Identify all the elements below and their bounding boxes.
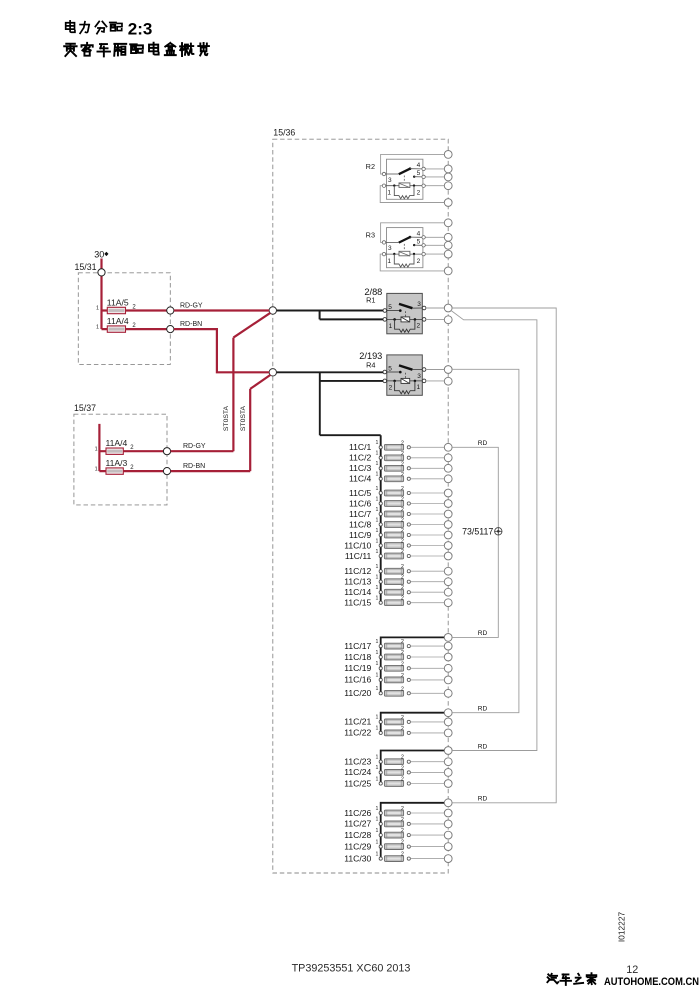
- fuse 11C/27: [344, 817, 452, 829]
- svg-text:5: 5: [417, 239, 421, 246]
- svg-text:4: 4: [417, 230, 421, 237]
- node A: junction circle on 15/36 edge (feed of R1): [269, 307, 276, 314]
- svg-text:1: 1: [376, 440, 379, 446]
- fuse box 15/37 (dashed): [74, 403, 167, 505]
- svg-text:1: 1: [376, 817, 379, 823]
- svg-text:15/31: 15/31: [75, 262, 97, 272]
- fuse 11C/12: [344, 564, 452, 576]
- wire: supply junction to relay R1 pin 5 and pin 1 (black): [277, 311, 384, 320]
- svg-text:1: 1: [376, 686, 379, 692]
- svg-text:2: 2: [401, 549, 404, 555]
- svg-text:1: 1: [96, 324, 99, 330]
- wire: internal bus stub in 15/37 (maroon): [99, 424, 106, 471]
- fuse 11C/2: [349, 451, 452, 463]
- svg-text:1: 1: [376, 517, 379, 523]
- fuse 11C/15: [344, 596, 452, 608]
- fuse 11C/11: [345, 549, 452, 561]
- svg-text:11C/6: 11C/6: [349, 498, 372, 508]
- svg-text:2: 2: [401, 817, 404, 823]
- fuse 11C/24: [344, 765, 452, 777]
- svg-text:11C/7: 11C/7: [349, 509, 372, 519]
- svg-text:1: 1: [376, 538, 379, 544]
- svg-text:2: 2: [401, 852, 404, 858]
- relay 2/88 R1: [364, 287, 425, 334]
- node circle group header y=803: [444, 799, 452, 807]
- svg-text:1: 1: [376, 564, 379, 570]
- svg-text:73/5117: 73/5117: [462, 527, 493, 537]
- svg-text:TP39253551 XC60 2013: TP39253551 XC60 2013: [292, 963, 411, 975]
- svg-text:RD-GY: RD-GY: [180, 303, 203, 310]
- svg-text:11C/17: 11C/17: [344, 641, 371, 651]
- svg-text:2: 2: [401, 715, 404, 721]
- fuse 11C/1: [349, 440, 452, 452]
- svg-text:11C/14: 11C/14: [344, 587, 371, 597]
- svg-text:1: 1: [376, 776, 379, 782]
- svg-text:11C/9: 11C/9: [349, 530, 372, 540]
- fuse 11C/21: [344, 715, 452, 727]
- svg-text:11C/26: 11C/26: [344, 808, 371, 818]
- svg-text:2: 2: [401, 639, 404, 645]
- svg-text:2: 2: [417, 322, 421, 329]
- svg-text:11C/11: 11C/11: [345, 551, 372, 561]
- fuse 11C/13: [344, 575, 452, 587]
- svg-text:11C/15: 11C/15: [344, 598, 371, 608]
- svg-text:11C/24: 11C/24: [344, 767, 371, 777]
- fuse 11C/5: [349, 486, 452, 498]
- svg-text:11C/19: 11C/19: [344, 663, 371, 673]
- svg-text:1: 1: [95, 446, 98, 452]
- svg-text:2: 2: [401, 661, 404, 667]
- fuse 11C/30: [344, 851, 452, 863]
- svg-text:2: 2: [401, 650, 404, 656]
- svg-text:2: 2: [417, 258, 421, 265]
- watermark 汽车之家: [547, 973, 596, 985]
- svg-text:1: 1: [387, 258, 391, 265]
- svg-text:1: 1: [376, 451, 379, 457]
- svg-text:11C/22: 11C/22: [344, 728, 371, 738]
- terminal circle 15/31 right edge row 2: [167, 326, 174, 333]
- svg-text:2: 2: [401, 585, 404, 591]
- svg-text:I012227: I012227: [617, 912, 627, 943]
- fuse 11C/29: [344, 839, 452, 851]
- svg-text:1: 1: [376, 726, 379, 732]
- svg-text:2: 2: [401, 777, 404, 783]
- svg-text:2: 2: [401, 673, 404, 679]
- svg-text:11C/4: 11C/4: [349, 474, 372, 484]
- terminal circles of relay R1 on 15/36 edge: [444, 304, 452, 324]
- svg-text:3: 3: [388, 177, 392, 184]
- svg-text:11C/23: 11C/23: [344, 757, 371, 767]
- wire RD from 11C/1 through splice 73/5117 to group 11C/17-20: [452, 440, 498, 637]
- svg-text:1: 1: [376, 585, 379, 591]
- svg-text:1: 1: [95, 466, 98, 472]
- svg-text:R1: R1: [366, 295, 375, 304]
- relay R3: [366, 223, 445, 271]
- fuse 11C/19: [344, 661, 452, 673]
- svg-text:12: 12: [626, 964, 638, 976]
- svg-text:1: 1: [376, 715, 379, 721]
- svg-text:11C/8: 11C/8: [349, 519, 372, 529]
- svg-text:11C/18: 11C/18: [344, 652, 371, 662]
- fuse 11C/6: [349, 496, 452, 508]
- footer page number: [626, 964, 638, 976]
- svg-text:2: 2: [401, 596, 404, 602]
- svg-text:2: 2: [401, 486, 404, 492]
- svg-text:5: 5: [417, 170, 421, 177]
- title line 1: 电力分配 2:3: [66, 20, 153, 39]
- wire: relay R4 pin 3 to edge terminal: [426, 369, 444, 371]
- svg-text:R4: R4: [366, 361, 375, 370]
- svg-text:1: 1: [376, 507, 379, 513]
- fuse 11C/7: [349, 507, 452, 519]
- svg-text:4: 4: [417, 162, 421, 169]
- fuse 11A/4 (15/31): [96, 316, 136, 332]
- svg-text:RD: RD: [478, 630, 488, 637]
- fuse 11C/9: [349, 528, 452, 540]
- svg-text:RD-BN: RD-BN: [183, 463, 205, 470]
- wire: bus feed for group at node (448,750) (black): [381, 751, 445, 784]
- svg-text:11C/3: 11C/3: [349, 463, 372, 473]
- svg-text:11C/1: 11C/1: [349, 442, 372, 452]
- svg-text:RD: RD: [478, 440, 488, 447]
- svg-text:1: 1: [387, 190, 391, 197]
- svg-text:2: 2: [401, 507, 404, 513]
- relay R2: [366, 154, 445, 202]
- wire RD from relay R4 pin 3 to group 11C/21-22: [452, 369, 519, 712]
- wire: fuse 11A/3 to edge circle (maroon): [123, 470, 163, 472]
- svg-text:11C/21: 11C/21: [344, 717, 371, 727]
- terminal circles of relay R4 on 15/36 edge: [444, 366, 452, 386]
- svg-text:2: 2: [401, 451, 404, 457]
- svg-text:2: 2: [401, 806, 404, 812]
- svg-text:11C/2: 11C/2: [349, 453, 372, 463]
- node circle group header y=713: [444, 709, 452, 717]
- svg-text:2: 2: [401, 726, 404, 732]
- wire RD-BN from 15/37 up to node B (maroon): [171, 375, 271, 471]
- wire: supply junction to relay R4 pin 5 / pin 2 and down to fuse bus 11C/1-15 (black): [277, 372, 384, 602]
- footer drawing id I012227 (rotated): [617, 912, 627, 943]
- svg-text:1: 1: [376, 549, 379, 555]
- svg-text:1: 1: [376, 806, 379, 812]
- node circle group header y=750: [444, 747, 452, 755]
- wire RD-BN from 15/31 to node B (maroon): [174, 321, 269, 372]
- svg-text:3: 3: [417, 373, 421, 380]
- fuse 11C/10: [344, 538, 452, 550]
- splice 73/5117: [462, 527, 502, 537]
- wire: 30+ down into 15/31 (maroon): [102, 259, 108, 330]
- svg-text:11A/5: 11A/5: [107, 298, 129, 308]
- svg-text:1: 1: [376, 496, 379, 502]
- svg-text:R2: R2: [366, 162, 375, 171]
- svg-text:1: 1: [389, 323, 393, 330]
- svg-text:15/37: 15/37: [74, 403, 96, 413]
- supply 30+ label: [94, 250, 108, 260]
- svg-text:2: 2: [401, 539, 404, 545]
- svg-text:1: 1: [376, 765, 379, 771]
- svg-text:2: 2: [401, 497, 404, 503]
- fuse 11C/22: [344, 726, 452, 738]
- fuse 11C/16: [344, 673, 452, 685]
- svg-text:RD: RD: [478, 743, 488, 750]
- svg-text:5: 5: [388, 304, 392, 311]
- svg-text:ST0STA: ST0STA: [240, 405, 247, 431]
- svg-text:RD: RD: [478, 706, 488, 713]
- fuse 11C/3: [349, 461, 452, 473]
- wire: bus feed for group at node (448,637) (black): [381, 637, 445, 693]
- svg-text:1: 1: [376, 650, 379, 656]
- svg-text:2: 2: [401, 686, 404, 692]
- node B: junction circle on 15/36 edge (feed of R4): [269, 369, 276, 376]
- svg-text:1: 1: [417, 384, 421, 391]
- wire: fuse 11A/5 to edge circle (maroon): [126, 309, 167, 311]
- title line 2: 乘客车厢配电盒概览: [64, 43, 209, 57]
- svg-text:11A/4: 11A/4: [106, 438, 128, 448]
- svg-text:2: 2: [401, 828, 404, 834]
- svg-text:2: 2: [401, 472, 404, 478]
- svg-text:2:3: 2:3: [128, 20, 153, 39]
- wire: relay R1 coil pin to edge terminal: [426, 318, 444, 320]
- fuse 11C/26: [344, 806, 452, 818]
- svg-text:1: 1: [376, 755, 379, 761]
- wire RD-GY from 15/37 up to node A (maroon): [171, 313, 271, 451]
- fuse 11C/17: [344, 639, 452, 651]
- svg-text:1: 1: [376, 575, 379, 581]
- svg-text:1: 1: [376, 839, 379, 845]
- svg-text:AUTOHOME.COM.CN: AUTOHOME.COM.CN: [604, 976, 699, 988]
- svg-text:1: 1: [376, 639, 379, 645]
- svg-text:11C/27: 11C/27: [344, 819, 371, 829]
- svg-text:1: 1: [376, 661, 379, 667]
- svg-text:2: 2: [401, 755, 404, 761]
- terminal circle 15/31 right edge row 1: [167, 307, 174, 314]
- wire: relay R1 pin 3 to edge terminal: [426, 307, 444, 309]
- fuse 11C/4: [349, 472, 452, 484]
- fuse 11A/3 (15/37): [95, 458, 135, 474]
- wire: fuse 11A/4 to edge circle (maroon): [123, 450, 163, 452]
- svg-text:11C/30: 11C/30: [344, 853, 371, 863]
- svg-text:2: 2: [401, 840, 404, 846]
- svg-text:RD-BN: RD-BN: [180, 321, 202, 328]
- svg-text:1: 1: [96, 306, 99, 312]
- wire: relay R4 coil pin to edge terminal: [426, 380, 444, 382]
- svg-text:RD-GY: RD-GY: [183, 443, 206, 450]
- svg-text:RD: RD: [478, 796, 488, 803]
- wire: bus feed for group at node (448,803) (black): [381, 803, 445, 859]
- terminal circles of relay R2 on 15/36 edge: [444, 151, 452, 207]
- fuse 11C/20: [344, 686, 452, 698]
- wire RD from relay R1 pin 3 (branch) to group 11C/23-25: [451, 310, 537, 750]
- fuse 11A/4 (15/37): [95, 438, 135, 454]
- fuse 11C/8: [349, 517, 452, 529]
- svg-text:1: 1: [376, 851, 379, 857]
- svg-text:2: 2: [401, 440, 404, 446]
- svg-text:11A/4: 11A/4: [107, 316, 129, 326]
- svg-text:2: 2: [401, 575, 404, 581]
- svg-text:11C/20: 11C/20: [344, 688, 371, 698]
- node circle group header y=637: [444, 634, 452, 642]
- svg-text:5: 5: [388, 366, 392, 373]
- svg-text:1: 1: [376, 528, 379, 534]
- watermark AUTOHOME.COM.CN: [604, 976, 699, 988]
- fuse 11A/5: [96, 298, 136, 314]
- svg-text:11C/12: 11C/12: [344, 566, 371, 576]
- wire RD from relay R1 pin 3 to group 11C/26-30: [452, 308, 556, 803]
- fuse 11C/14: [344, 585, 452, 597]
- svg-text:1: 1: [376, 472, 379, 478]
- svg-text:15/36: 15/36: [273, 128, 295, 138]
- terminal circle 15/37 right edge row 1: [163, 448, 170, 455]
- svg-text:2/193: 2/193: [359, 351, 382, 361]
- svg-text:2: 2: [401, 518, 404, 524]
- svg-text:11A/3: 11A/3: [106, 458, 128, 468]
- svg-text:11C/13: 11C/13: [344, 577, 371, 587]
- footer document number: [292, 963, 411, 975]
- svg-text:11C/25: 11C/25: [344, 778, 371, 788]
- svg-text:R3: R3: [366, 230, 375, 239]
- wire: bus feed for group at node (448,713) (black): [381, 713, 445, 733]
- svg-text:2: 2: [401, 528, 404, 534]
- wire: fuse 11A/4 to edge circle (maroon): [126, 328, 167, 330]
- terminal circle 15/37 right edge row 2: [163, 468, 170, 475]
- fuse box 15/31 (dashed): [75, 262, 171, 364]
- fuse 11C/18: [344, 650, 452, 662]
- svg-text:1: 1: [376, 486, 379, 492]
- fuse 11C/23: [344, 755, 452, 767]
- svg-text:3: 3: [388, 245, 392, 252]
- central electronic module box 15/36 (dashed): [273, 128, 448, 873]
- fuse 11C/28: [344, 828, 452, 840]
- svg-text:2: 2: [401, 765, 404, 771]
- svg-text:2: 2: [389, 384, 393, 391]
- svg-text:11C/10: 11C/10: [344, 540, 371, 550]
- svg-text:11C/16: 11C/16: [344, 675, 371, 685]
- svg-text:1: 1: [376, 461, 379, 467]
- svg-text:11C/29: 11C/29: [344, 841, 371, 851]
- svg-text:1: 1: [376, 828, 379, 834]
- wire RD-GY from 15/31 to node A (maroon): [174, 303, 269, 311]
- svg-text:30: 30: [94, 250, 104, 260]
- svg-text:3: 3: [417, 301, 421, 308]
- svg-text:2: 2: [401, 564, 404, 570]
- svg-text:11C/5: 11C/5: [349, 488, 372, 498]
- terminal circles of relay R3 on 15/36 edge: [444, 219, 452, 275]
- svg-text:2: 2: [401, 461, 404, 467]
- svg-text:1: 1: [376, 596, 379, 602]
- svg-text:11C/28: 11C/28: [344, 830, 371, 840]
- svg-text:ST0STA: ST0STA: [223, 405, 230, 431]
- svg-text:2: 2: [417, 190, 421, 197]
- fuse 11C/25: [344, 776, 452, 788]
- svg-text:1: 1: [376, 673, 379, 679]
- relay 2/193 R4: [359, 351, 426, 396]
- terminal circle on 15/31 top edge: [98, 269, 105, 276]
